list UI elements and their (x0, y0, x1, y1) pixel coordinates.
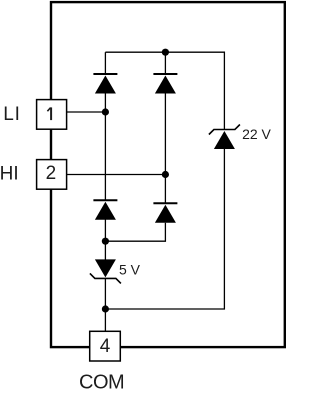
pin box 4 (90, 331, 121, 361)
svg-text:HI: HI (0, 163, 19, 184)
outer device boundary rectangle (51, 2, 285, 347)
zener diode 5 V (90, 259, 121, 283)
svg-text:22 V: 22 V (242, 126, 271, 142)
junction dot pin-1 node (102, 108, 109, 115)
diode D1 (top, column 1) (93, 74, 117, 94)
wire: zener branch upper segment (223, 76, 225, 130)
pin box 1 (37, 100, 67, 130)
zener diode 22 V (209, 125, 240, 150)
svg-text:LI: LI (3, 104, 20, 125)
wire: pin 2 to column 2 (67, 174, 166, 176)
diode D3 (lower, column 1) (93, 200, 117, 220)
pin box 2 (37, 160, 67, 190)
wire: column 2 from D2 anode through pin-2 node to D4 cathode bar (164, 94, 166, 205)
svg-text:COM: COM (79, 372, 124, 394)
wire: column 1 from 5V zener cathode down to pin 4 (104, 278, 106, 331)
wire: top rail from node above D1 to zener branch (105, 52, 224, 76)
svg-text:2: 2 (46, 163, 57, 184)
junction dot lower diode common node (102, 238, 109, 245)
junction dot on top rail at column 2 (162, 49, 169, 56)
diode D4 (lower, column 2) (153, 203, 177, 223)
wire: zener branch lower segment down to bottom rail (105, 149, 224, 310)
wire: column 1 from D3 anode through node down to 5V zener (104, 220, 106, 261)
wire: column 1 from top rail to D1 (104, 52, 106, 75)
wire: pin 1 to column 1 (67, 111, 106, 113)
svg-text:5 V: 5 V (119, 262, 141, 278)
wire: column 2 from top rail node to D2 (164, 52, 166, 75)
svg-text:4: 4 (100, 336, 111, 357)
junction dot bottom rail node (102, 305, 109, 312)
wire: column 2 from D4 anode joining column 1 node (105, 223, 165, 241)
wire: column 1 from D1 anode through pin-1 node down to D3 cathode bar (104, 94, 106, 202)
diode D2 (top, column 2) (153, 74, 177, 94)
junction dot pin-2 node (162, 171, 169, 178)
